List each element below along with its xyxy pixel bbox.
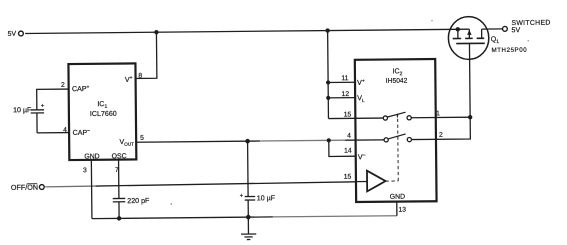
svg-text:8: 8 <box>138 73 142 80</box>
svg-text:CAP+: CAP+ <box>72 84 90 93</box>
svg-text:IC1: IC1 <box>97 100 107 110</box>
svg-text:10 µF: 10 µF <box>257 194 276 202</box>
svg-text:13: 13 <box>398 207 406 214</box>
svg-text:V−: V− <box>358 153 366 162</box>
svg-text:4: 4 <box>347 133 351 140</box>
svg-text:5V: 5V <box>511 26 520 34</box>
svg-text:IC2: IC2 <box>392 67 402 77</box>
svg-text:GND: GND <box>84 153 99 160</box>
svg-text:IH5042: IH5042 <box>386 78 408 85</box>
svg-text:220 pF: 220 pF <box>127 197 150 205</box>
svg-text:1: 1 <box>436 110 440 117</box>
svg-text:V+: V+ <box>125 75 133 84</box>
svg-text:2: 2 <box>61 82 65 89</box>
svg-text:+: + <box>41 103 45 109</box>
svg-text:10 µF: 10 µF <box>13 106 32 114</box>
svg-text:MTH25P00: MTH25P00 <box>491 47 527 54</box>
svg-text:11: 11 <box>341 75 348 82</box>
svg-text:14: 14 <box>344 148 352 155</box>
svg-text:VL: VL <box>357 94 365 103</box>
svg-text:2: 2 <box>439 132 443 139</box>
svg-text:CAP−: CAP− <box>73 128 91 137</box>
svg-text:Q1: Q1 <box>491 35 500 45</box>
svg-text:V+: V+ <box>357 78 365 87</box>
svg-text:GND: GND <box>390 194 405 201</box>
svg-text:+: + <box>240 193 244 199</box>
svg-text:5V: 5V <box>8 31 17 38</box>
svg-text:15: 15 <box>344 111 352 118</box>
svg-text:15: 15 <box>344 174 352 181</box>
svg-text:3: 3 <box>83 167 87 174</box>
svg-text:7: 7 <box>115 167 119 174</box>
svg-text:12: 12 <box>342 91 350 98</box>
svg-text:OSC: OSC <box>112 153 127 160</box>
svg-text:4: 4 <box>63 127 67 134</box>
svg-text:5: 5 <box>140 135 144 142</box>
svg-text:ICL7660: ICL7660 <box>90 110 117 118</box>
svg-text:VOUT: VOUT <box>119 138 134 147</box>
